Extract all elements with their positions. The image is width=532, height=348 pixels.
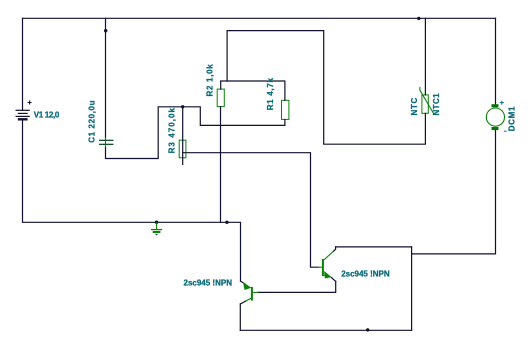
svg-text:2sc945 !NPN: 2sc945 !NPN	[341, 269, 390, 278]
svg-text:R3 470,0k: R3 470,0k	[168, 107, 177, 153]
svg-text:2sc945 !NPN: 2sc945 !NPN	[184, 278, 233, 287]
svg-text:V1 12,0: V1 12,0	[34, 110, 60, 119]
svg-text:C1 220,0u: C1 220,0u	[88, 100, 97, 143]
svg-text:NTC1: NTC1	[432, 93, 441, 116]
svg-text:R2 1,0k: R2 1,0k	[205, 64, 214, 97]
svg-text:NTC: NTC	[410, 97, 419, 116]
svg-text:R1 4,7k: R1 4,7k	[266, 77, 275, 110]
svg-text:DCM1: DCM1	[508, 106, 517, 131]
